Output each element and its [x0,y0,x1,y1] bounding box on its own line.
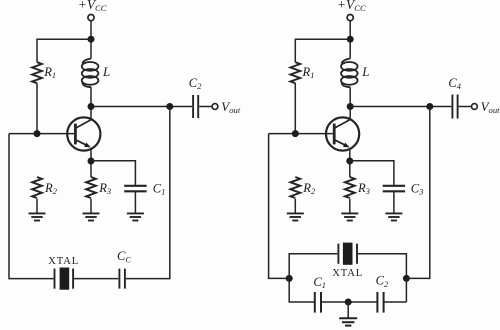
inductor L (left) [82,59,99,88]
wire output rail to C2 (left) [91,106,192,108]
junction emitter/R3/C1 (left) [88,158,95,165]
wire C2 to Vout terminal (left) [199,106,212,108]
svg-text:+VCC: +VCC [78,0,107,13]
svg-text:R3: R3 [357,181,370,196]
ground under R3 (left) [83,213,100,220]
svg-text:XTAL: XTAL [332,268,363,279]
svg-text:C4: C4 [448,76,461,91]
svg-text:R2: R2 [302,181,315,196]
wire emitter to R3 (right) [349,151,351,177]
wire L bottom to transistor collector (left) [90,87,92,118]
junction VCC/R1 (left) [88,36,95,43]
wire output rail to C4 [350,106,451,108]
wire R2 to ground (left) [36,199,38,213]
junction output/feedback (right) [426,103,433,110]
wire Cc to feedback right side (left) [126,107,170,279]
wire emitter node to C3 [350,161,394,185]
svg-text:C1: C1 [153,181,166,196]
junction output/feedback (left) [166,103,173,110]
transistor Q1 (left) [67,117,100,150]
svg-text:R1: R1 [302,65,315,80]
ground under R2 (right) [287,213,304,220]
wire VCC to collector rail (right) [349,21,351,59]
wire emitter to R3 (left) [90,151,92,177]
ground center bottom (right) [339,318,357,325]
capacitor C4 [452,95,457,119]
capacitor C1 (left) [124,186,146,192]
transistor Q2 (right) [326,117,359,150]
wire C1 to center ground node [322,301,378,303]
ground under C3 [385,213,402,220]
junction center ground node [345,299,352,306]
wire base rail (left) [9,133,74,135]
svg-text:L: L [361,64,369,79]
resistor R2 (right) [290,177,300,198]
wire VCC node to R1 top (left) [37,39,91,62]
capacitor C2 [193,95,198,118]
wire R1 bottom to base node (left) [36,83,38,133]
wire VCC to collector rail (left) [90,21,92,59]
wire C3 to ground [393,191,395,213]
wire right junction down [405,278,407,302]
junction crystal-right (right) [403,275,410,282]
svg-text:L: L [102,64,110,79]
junction collector/output (left) [88,103,95,110]
svg-text:Vout: Vout [221,99,241,115]
wire L bottom to transistor collector (right) [349,87,351,118]
ground under R2 (left) [29,213,46,220]
VCC terminal (left) [88,15,94,21]
wire feedback left side (right) [269,134,290,279]
capacitor C1 (right) [315,292,321,313]
svg-text:Vout: Vout [481,99,500,115]
svg-text:CC: CC [117,249,131,264]
wire feedback left side (left) [9,134,53,279]
junction base/R1/R2 (left) [34,130,41,137]
wire R3 to ground (right) [349,199,351,213]
svg-text:R2: R2 [44,181,57,196]
wire C1 to ground (left) [134,191,136,213]
junction collector/output (right) [347,103,354,110]
ground under C1 (left) [127,213,144,220]
capacitor C2 (right) [377,292,383,313]
ground under R3 (right) [341,213,358,220]
svg-text:C2: C2 [376,274,389,289]
junction crystal-left (right) [286,275,293,282]
wire VCC node to R1 top (right) [295,39,350,62]
capacitor C3 [383,186,405,192]
wire left junction to crystal branch [289,254,337,279]
svg-text:R3: R3 [98,181,111,196]
wire C2 to right junction [384,301,406,303]
junction VCC/R1 (right) [347,36,354,43]
svg-text:XTAL: XTAL [48,256,79,267]
svg-text:C1: C1 [313,275,326,290]
resistor R1 (right) [290,62,300,83]
svg-text:C3: C3 [411,181,424,196]
svg-text:R1: R1 [43,65,56,80]
wire base rail (right) [269,133,333,135]
terminal Vout (right) [472,104,478,110]
resistor R3 (left) [86,177,96,198]
wire ground stub center [347,302,349,318]
VCC terminal (right) [347,15,353,21]
terminal Vout (left) [212,104,218,110]
resistor R1 (left) [32,62,42,83]
resistor R3 (right) [345,177,355,198]
inductor L (right) [341,59,358,88]
wire left junction down to C1 [289,278,314,302]
wire C4 to Vout terminal (right) [459,106,472,108]
crystal XTAL (left) [55,268,74,290]
resistor R2 (left) [32,177,42,198]
wire R3 to ground (left) [90,199,92,213]
wire feedback right side (right) [406,107,429,279]
wire R1 bottom to base node (right) [294,83,296,133]
crystal XTAL (right) [338,243,357,265]
wire emitter node to C1 (left) [91,161,135,185]
svg-text:C2: C2 [189,76,202,91]
junction emitter/R3/C3 (right) [346,158,353,165]
svg-text:+VCC: +VCC [337,0,366,13]
wire crystal to right junction [358,254,406,279]
junction base/R1/R2 (right) [292,130,299,137]
wire R2 to ground (right) [294,199,296,213]
capacitor Cc [119,269,125,289]
wire XTAL to Cc [74,278,118,280]
